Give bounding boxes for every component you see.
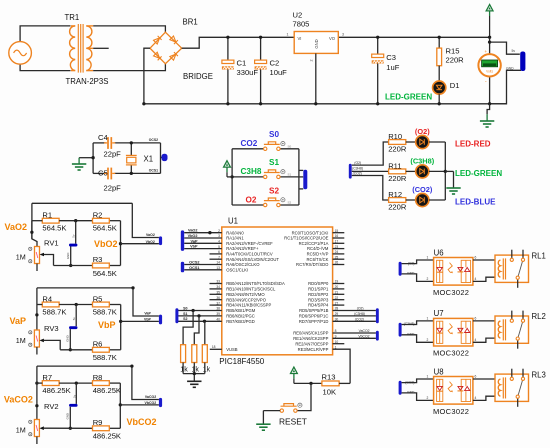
wire to power arrow switches (227, 176, 232, 178)
voltmeter (478, 49, 500, 84)
junction VaP mid (75, 303, 78, 306)
svg-text:C5: C5 (98, 169, 108, 178)
svg-text:1M: 1M (16, 253, 26, 262)
led D4 ((CO2)) (416, 193, 429, 206)
wire to battery plus (490, 42, 520, 54)
resistor R8 (93, 381, 110, 386)
svg-text:U2: U2 (293, 11, 303, 20)
net label OCS2 crystal (149, 138, 158, 142)
svg-text:486.25K: 486.25K (93, 432, 121, 441)
wire D1 to bottom rail (438, 94, 440, 104)
svg-text:S0: S0 (288, 145, 292, 149)
wire LED R10 right (429, 141, 445, 143)
svg-text:VbP: VbP (144, 318, 151, 322)
ground symbol led bank (446, 188, 460, 194)
label TRAN-2P3S (66, 77, 109, 86)
svg-text:VbO2: VbO2 (146, 240, 155, 244)
label U8 (434, 367, 444, 376)
wire AC source loop (20, 26, 70, 71)
U1 pin numbers (212, 229, 339, 350)
relay RL2 (495, 311, 529, 349)
junction D1 bottom (438, 102, 441, 105)
wire arrow to R13 (294, 382, 322, 384)
value 1M RV1 (16, 253, 26, 262)
svg-text:4: 4 (475, 277, 477, 281)
pin 2 U6 (427, 277, 429, 281)
net label (C3H8) U1 (354, 312, 365, 316)
net label VbP tiny (144, 318, 151, 322)
label MOC3022 U8 (433, 407, 469, 416)
wire U8 pin4 to relay (473, 396, 501, 400)
RV1 circled wiper (29, 260, 32, 263)
svg-text:LED-GREEN: LED-GREEN (455, 169, 502, 178)
value 1k a (180, 367, 188, 374)
label LED-BLUE (455, 198, 496, 207)
svg-text:S2: S2 (269, 186, 279, 195)
capacitor C2 (255, 60, 267, 69)
svg-text:RB4/AN11/KBI0/CSSPP: RB4/AN11/KBI0/CSSPP (226, 303, 271, 308)
led D2 ((O2)) (416, 135, 429, 148)
svg-text:OCS1: OCS1 (149, 169, 158, 173)
junction R15 top (438, 36, 441, 39)
svg-text:RV2: RV2 (44, 402, 59, 411)
net label (C3H8) tiny a (352, 166, 363, 170)
label RL1 (532, 251, 546, 260)
svg-text:VbP: VbP (98, 320, 116, 330)
label LED-RED (455, 140, 491, 149)
RV3 circled wiper (29, 343, 32, 346)
wire VaO2 top rail (32, 202, 132, 204)
label C5 (98, 169, 108, 178)
junction crystal gnd (91, 156, 94, 159)
svg-text:R7: R7 (42, 373, 52, 382)
svg-text:RB5/KBI1/PGM: RB5/KBI1/PGM (226, 308, 256, 313)
junction X1 top (130, 141, 133, 144)
value 10uF (270, 68, 288, 77)
pin 6 U7 (475, 317, 477, 321)
wire VaP left vertical (36, 288, 38, 305)
resistor R13 (322, 381, 339, 386)
wire led fan top (352, 142, 389, 165)
label U7 (434, 309, 444, 318)
wire RV3 bottom stub (36, 347, 38, 355)
terminal S inputs (175, 308, 178, 323)
pin 1 U8 (427, 375, 429, 379)
transformer TR1 (70, 24, 94, 73)
label X1 (144, 155, 154, 164)
switch S1 (264, 170, 286, 179)
label RV1 (44, 238, 59, 247)
wires U1 RB0-RB4 stubs (210, 284, 222, 306)
label C2 (270, 58, 280, 67)
svg-text:1uF: 1uF (386, 63, 399, 72)
wire transformer secondary tap stub (93, 47, 109, 49)
junction VaCO2 left (35, 404, 38, 407)
svg-text:R4: R4 (42, 295, 52, 304)
wire C4 row (93, 142, 160, 144)
label BRIDGE (183, 72, 213, 81)
wires U1 RD5-RD7 to terminal (333, 311, 376, 322)
svg-text:D1: D1 (450, 81, 460, 90)
svg-text:RB6/KBI2/PGC: RB6/KBI2/PGC (226, 314, 255, 319)
label s1 tiny (288, 173, 292, 177)
junction battery VaP (69, 348, 72, 351)
junction battery branch (488, 40, 491, 43)
svg-text:RA0/AN0: RA0/AN0 (226, 230, 244, 235)
svg-text:7805: 7805 (293, 20, 310, 29)
svg-text:VbO2: VbO2 (188, 234, 198, 238)
svg-text:GND: GND (66, 413, 70, 419)
value R9 (93, 432, 121, 441)
wire VbP right vertical (120, 305, 122, 350)
svg-text:RD5/SPP5/P1B: RD5/SPP5/P1B (299, 308, 329, 313)
svg-text:OSC1/CLKI: OSC1/CLKI (226, 267, 248, 272)
svg-text:564.5K: 564.5K (93, 269, 117, 278)
wire R15 to D1 (438, 66, 440, 82)
relay RL3 (495, 369, 529, 407)
wire RV2 bottom stub (36, 437, 38, 445)
net label VbCO2 U1 (358, 334, 369, 338)
wire RV2 top lead (36, 383, 38, 419)
svg-text:220R: 220R (388, 145, 407, 154)
label GND VaP (66, 335, 70, 341)
svg-text:RE1/AN6/CK2SPP: RE1/AN6/CK2SPP (293, 336, 328, 341)
junction S2 branch (203, 320, 206, 323)
U2 pin number 1 (287, 33, 289, 37)
pin 2 U8 (427, 396, 429, 400)
value R3 (93, 269, 117, 278)
resistor R6 (93, 347, 110, 352)
wire 1k commons (183, 363, 205, 382)
wire RV3 top lead (36, 305, 38, 331)
AC source V1 (9, 42, 32, 65)
resistor R_1k c (202, 345, 207, 363)
wire U7 pin2 (402, 335, 434, 343)
wire VaO2 to terminal (132, 203, 159, 237)
svg-text:RE2/AN7/OESPP: RE2/AN7/OESPP (295, 341, 328, 346)
wire U8 pin1 (402, 379, 434, 383)
label S0 (269, 130, 279, 139)
wire R13 right (339, 382, 350, 384)
wire switch terminal top (299, 169, 303, 171)
svg-text:R1: R1 (42, 211, 52, 220)
ground below meter (487, 104, 490, 121)
capacitor C5 (104, 168, 115, 180)
svg-text:GND: GND (66, 335, 70, 341)
bridge rectifier BR1 (150, 32, 182, 64)
terminal VaO2/VbO2 (159, 236, 162, 245)
power +5V arrow top (486, 5, 493, 38)
svg-text:RB1/AN10/INT1/SCK/SCL: RB1/AN10/INT1/SCK/SCL (226, 287, 276, 292)
svg-text:VaP: VaP (191, 239, 198, 243)
resistor R11 (389, 169, 406, 174)
svg-text:2: 2 (427, 338, 429, 342)
terminal OCS (162, 154, 168, 161)
opto-coupler U7 body (434, 318, 473, 346)
label S2 (269, 186, 279, 195)
svg-text:(O2): (O2) (415, 127, 430, 136)
svg-text:VaCO2: VaCO2 (359, 329, 370, 333)
wire LED R12 right (429, 199, 445, 201)
junction C1 top (226, 36, 229, 39)
terminal analog inputs (181, 230, 184, 251)
svg-text:VbCO2: VbCO2 (358, 334, 369, 338)
svg-text:RC1/T1OSI/CCP2/UOE: RC1/T1OSI/CCP2/UOE (284, 236, 328, 241)
label R6 (93, 339, 103, 348)
RV2 circled wiper (29, 433, 32, 436)
svg-text:C4: C4 (98, 133, 108, 142)
value 220R R11 (388, 174, 407, 183)
svg-text:LED-GREEN: LED-GREEN (385, 93, 432, 102)
opto-coupler U8 body (434, 377, 473, 405)
net label VbO2 U1 (188, 234, 198, 238)
svg-text:RC0/T1OSO/T1CKI: RC0/T1OSO/T1CKI (292, 230, 329, 235)
svg-text:1: 1 (427, 256, 429, 260)
svg-text:5v: 5v (512, 49, 516, 53)
label PIC18F4550 (219, 357, 264, 366)
label R15 (446, 47, 460, 56)
svg-text:RC6/TX/CK: RC6/TX/CK (307, 257, 329, 262)
label R11 (388, 162, 401, 171)
svg-text:U1: U1 (228, 216, 238, 225)
svg-text:5v: 5v (72, 394, 76, 398)
wire VaCO2 to terminal (132, 366, 159, 399)
svg-text:RD3/SPP3: RD3/SPP3 (308, 297, 329, 302)
svg-text:564.5K: 564.5K (93, 224, 117, 233)
terminal gas input LEDs (349, 164, 352, 179)
svg-text:C3: C3 (386, 53, 396, 62)
svg-text:TRAN-2P3S: TRAN-2P3S (66, 77, 109, 86)
svg-text:VaO2: VaO2 (146, 233, 155, 237)
svg-text:LED-RED: LED-RED (455, 140, 491, 149)
svg-text:R9: R9 (93, 418, 103, 427)
wire bridge minus to bottom rail (144, 48, 150, 104)
net label S2 (183, 317, 187, 321)
value R1 (42, 224, 66, 233)
svg-text:VbCO2: VbCO2 (127, 417, 157, 427)
svg-text:486.25K: 486.25K (93, 386, 121, 395)
net label VaO2 U1 (188, 229, 198, 233)
svg-text:RL1: RL1 (532, 251, 546, 260)
wire switches right vertical (298, 149, 300, 205)
svg-text:10uF: 10uF (270, 68, 288, 77)
pin 6 U6 (475, 256, 477, 260)
label (C3H8) (410, 156, 434, 165)
label R2 (93, 211, 103, 220)
label VbP (98, 320, 116, 330)
led D3 ((C3H8)) (416, 165, 429, 178)
U2 pin number 2 (310, 60, 314, 62)
label 5v VaP (72, 317, 76, 321)
label C3 (386, 53, 396, 62)
wires U1 RE0-RE1 to terminal (333, 333, 376, 338)
wire crystal X1 leads (130, 143, 132, 174)
net label S1 (183, 312, 187, 316)
junction X1 bottom (130, 172, 133, 175)
label VaP (10, 316, 27, 326)
net label OCS1 U1 (189, 266, 199, 270)
net label (O2) U1 (357, 307, 364, 311)
battery bias VaCO2 (69, 383, 77, 428)
label RL2 (532, 312, 546, 321)
ground symbol crystal (72, 164, 86, 170)
svg-text:VbO2: VbO2 (94, 239, 118, 249)
svg-text:GND: GND (66, 253, 70, 259)
U2 pin VI text (298, 36, 302, 41)
svg-text:1M: 1M (16, 336, 26, 345)
wire led common vertical (444, 142, 446, 200)
label U1 (228, 216, 238, 225)
label 5v VaCO2 (72, 394, 76, 398)
label R12 (388, 190, 402, 199)
svg-text:RA3/AN3/VREF+: RA3/AN3/VREF+ (226, 246, 259, 251)
svg-text:RV1: RV1 (44, 238, 59, 247)
wire C2 leads (260, 37, 262, 104)
wire U7 pin1 (402, 321, 434, 325)
label R5 (93, 295, 103, 304)
junction rail meter (488, 36, 491, 39)
wire crystal gnd stub (79, 158, 93, 164)
label RV2 (44, 402, 59, 411)
junction VaO2 left (30, 231, 33, 234)
svg-text:VI: VI (298, 36, 302, 41)
label VaO2 (5, 222, 28, 232)
pin 1 U7 (427, 317, 429, 321)
svg-text:S1: S1 (269, 158, 279, 167)
resistor R5 (93, 302, 110, 307)
wire U8 pin2 (402, 393, 434, 401)
junction led common (444, 170, 447, 173)
label D1 (450, 81, 460, 90)
svg-text:RA6/OSC2/CLKO: RA6/OSC2/CLKO (226, 262, 260, 267)
capacitor C3 (372, 54, 384, 63)
svg-text:330uF: 330uF (237, 68, 259, 77)
mcu U1 body (222, 227, 333, 355)
svg-text:CO2: CO2 (241, 139, 258, 148)
junction VaO2 mid (74, 219, 77, 222)
wires U1 RA0-RA3 to terminal (184, 233, 222, 249)
wire VbO2 right vertical (120, 221, 122, 266)
svg-text:RE0/AN5/CK1SPP: RE0/AN5/CK1SPP (293, 331, 328, 336)
junction bottom-left (142, 102, 145, 105)
svg-text:RA4/T0CKI/C1OUT/RCV: RA4/T0CKI/C1OUT/RCV (226, 252, 273, 257)
svg-text:RA2/AN2/VREF-/CVREF: RA2/AN2/VREF-/CVREF (226, 241, 273, 246)
junction S0 branch (191, 309, 194, 312)
svg-text:S1: S1 (288, 173, 292, 177)
svg-text:RC5/D+/VP: RC5/D+/VP (307, 252, 329, 257)
junction VaCO2 mid (75, 381, 78, 384)
svg-text:10K: 10K (323, 388, 337, 397)
svg-text:C1: C1 (237, 58, 247, 67)
value 1M RV3 (16, 336, 26, 345)
svg-text:1: 1 (427, 375, 429, 379)
net label VaCO2 U1 (359, 329, 370, 333)
label S1 (269, 158, 279, 167)
svg-text:1M: 1M (16, 426, 26, 435)
wire crystal terminal stub (161, 156, 163, 158)
label BR1 (183, 18, 198, 27)
pin 4 U8 (475, 396, 477, 400)
svg-text:(C3H8): (C3H8) (352, 166, 363, 170)
wire bottom rail (144, 103, 507, 105)
RV3 circled plus (29, 331, 32, 334)
terminal S0S1S2 right (303, 170, 307, 190)
value 7805 (293, 20, 310, 29)
label 5v battery (512, 49, 516, 53)
svg-text:R13: R13 (322, 372, 336, 381)
junction C3 bottom (376, 102, 379, 105)
svg-text:U6: U6 (434, 248, 444, 257)
svg-text:RESET: RESET (279, 416, 307, 426)
svg-text:RD1/SPP1: RD1/SPP1 (308, 287, 329, 292)
wire RV1 wiper (44, 255, 54, 266)
svg-text:2: 2 (427, 277, 429, 281)
label TR1 (65, 13, 80, 22)
value R6 (93, 353, 117, 362)
label R10 (388, 132, 402, 141)
junction battery VaO2 (69, 264, 72, 267)
svg-text:2: 2 (427, 396, 429, 400)
wire VaCO2 left vertical (36, 366, 38, 383)
svg-text:+: + (484, 49, 487, 54)
wire VbP bottom row (60, 349, 120, 351)
wire VaP top rail (37, 287, 133, 289)
wire C5 row (93, 172, 160, 174)
switch S2 (264, 198, 286, 207)
label RV3 (44, 324, 59, 333)
wire R10 to LED (406, 141, 416, 143)
label U6 (434, 248, 444, 257)
svg-text:R12: R12 (388, 190, 402, 199)
svg-text:RB3/AN9/CCP2/VPO: RB3/AN9/CCP2/VPO (226, 297, 267, 302)
net label (C3H8) U7 (404, 322, 415, 326)
resistor R_1k b (192, 345, 197, 363)
wire S2 row (232, 204, 299, 206)
net label VbCO2 tiny (145, 401, 157, 405)
value 220R R12 (388, 203, 407, 212)
terminal gas outputs U1 (376, 308, 379, 323)
power +5V arrow R13 (291, 367, 298, 383)
wire RV1 bottom stub (36, 264, 38, 272)
svg-text:RD6/SPP6/P1C: RD6/SPP6/P1C (299, 314, 329, 319)
svg-text:O2: O2 (246, 195, 257, 204)
wire R13 to RESET (297, 383, 311, 410)
battery BAT1 (520, 52, 525, 72)
svg-text:588.7K: 588.7K (93, 307, 117, 316)
label GND VaO2 (66, 253, 70, 259)
junction VaP rail corner (131, 286, 134, 289)
pin 6 U8 (475, 375, 477, 379)
svg-text:R11: R11 (388, 162, 401, 171)
U2 pin GND text (314, 39, 319, 48)
svg-text:RD0/SPP0: RD0/SPP0 (308, 281, 329, 286)
wire U6 pin6 to relay (473, 259, 501, 261)
value R5 (93, 307, 117, 316)
wire VbP to terminal (121, 320, 159, 322)
wire U6 pin4 to relay (473, 277, 501, 281)
wire C3 leads (377, 37, 379, 104)
wire RV3 wiper (44, 340, 60, 349)
RV1 circled plus (29, 247, 32, 250)
resistor R_1k a (181, 345, 186, 363)
svg-text:1k: 1k (203, 367, 211, 374)
ground symbol RESET (256, 424, 270, 430)
label R13 (322, 372, 336, 381)
svg-text:6: 6 (475, 256, 477, 260)
pin 1 U6 (427, 256, 429, 260)
junction VbCO2 (119, 403, 122, 406)
svg-text:Volts: Volts (486, 70, 493, 74)
